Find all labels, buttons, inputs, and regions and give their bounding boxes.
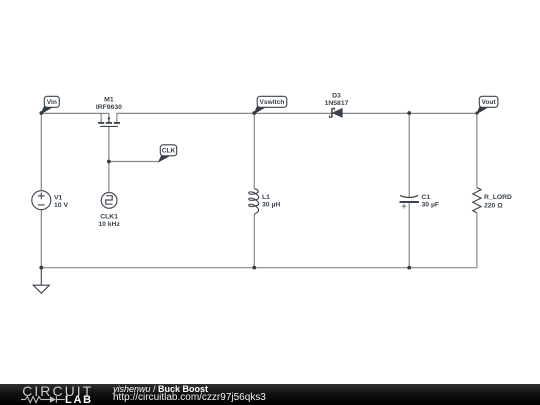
footer url text [113, 392, 266, 403]
wire CLK net horizontal [109, 161, 159, 163]
svg-text:LAB: LAB [65, 394, 93, 405]
node flag Vin [41, 96, 59, 113]
wire L1 bottom to bottom rail [253, 215, 255, 268]
wire top rail right (Vswitch to Vout net) [117, 112, 478, 114]
svg-text:C1: C1 [422, 194, 431, 201]
CircuitLab logo [0, 384, 110, 405]
svg-text:IRF9630: IRF9630 [96, 104, 122, 111]
junction ground node [39, 266, 43, 270]
resistor R_LORD [473, 188, 481, 213]
footer title: yishenwu / Buck Boost [113, 384, 208, 394]
svg-text:V1: V1 [54, 195, 63, 202]
ground symbol [33, 268, 49, 294]
inductor L1 coil [249, 189, 259, 215]
svg-text:30 µH: 30 µH [262, 201, 280, 208]
voltage source V1 [32, 191, 51, 210]
junction Vswitch node [252, 111, 256, 115]
svg-text:10 kHz: 10 kHz [98, 221, 120, 228]
svg-text:L1: L1 [262, 194, 270, 201]
svg-text:D3: D3 [332, 93, 341, 100]
svg-text:30 µF: 30 µF [422, 201, 440, 208]
wire C1 bottom lead [408, 202, 410, 268]
wire C1 top lead [408, 113, 410, 197]
svg-text:10 V: 10 V [54, 202, 68, 209]
footer bar [0, 384, 540, 405]
svg-text:R_LORD: R_LORD [484, 194, 512, 201]
svg-text:CLK: CLK [162, 148, 176, 155]
node flag Vout [477, 96, 498, 113]
junction L1 bottom node [252, 266, 256, 270]
diode D3 (Schottky 1N5817) [330, 108, 343, 117]
svg-text:Vin: Vin [47, 99, 57, 106]
junction C1 bottom node [407, 266, 411, 270]
wire R_LORD bottom lead [476, 213, 478, 268]
capacitor C1 (polarized) [400, 195, 419, 202]
wire R_LORD top lead (Vout net) [476, 113, 478, 187]
transistor M1 (PMOS IRF9630) [98, 113, 120, 126]
junction Vout corner [475, 111, 478, 114]
svg-text:220 Ω: 220 Ω [484, 202, 503, 209]
logo schematic squiggle with resistor and diode [21, 396, 65, 403]
node flag Vswitch [254, 96, 287, 113]
wire left vertical lower (V1.- to bottom rail) [40, 210, 42, 268]
svg-text:CLK1: CLK1 [100, 214, 118, 221]
junction C1 top node [407, 111, 411, 115]
svg-text:Vswitch: Vswitch [260, 99, 285, 106]
junction CLK gate node [107, 160, 111, 164]
wire left vertical upper (Vin to V1.+) [40, 113, 42, 190]
plus mark of C1 [402, 204, 407, 209]
wire gate lead (M1 gate to CLK1) [108, 127, 110, 193]
svg-text:1N5817: 1N5817 [325, 100, 349, 107]
node flag CLK [159, 145, 177, 162]
svg-text:Vout: Vout [482, 99, 497, 106]
wire bottom rail (ground net) [41, 267, 477, 269]
junction Vin corner [39, 111, 43, 115]
wire top rail left (Vin net) [41, 112, 109, 114]
svg-text:M1: M1 [104, 97, 114, 104]
clock source CLK1 [101, 193, 117, 209]
wire Vswitch branch upper (rail to L1) [253, 113, 255, 188]
